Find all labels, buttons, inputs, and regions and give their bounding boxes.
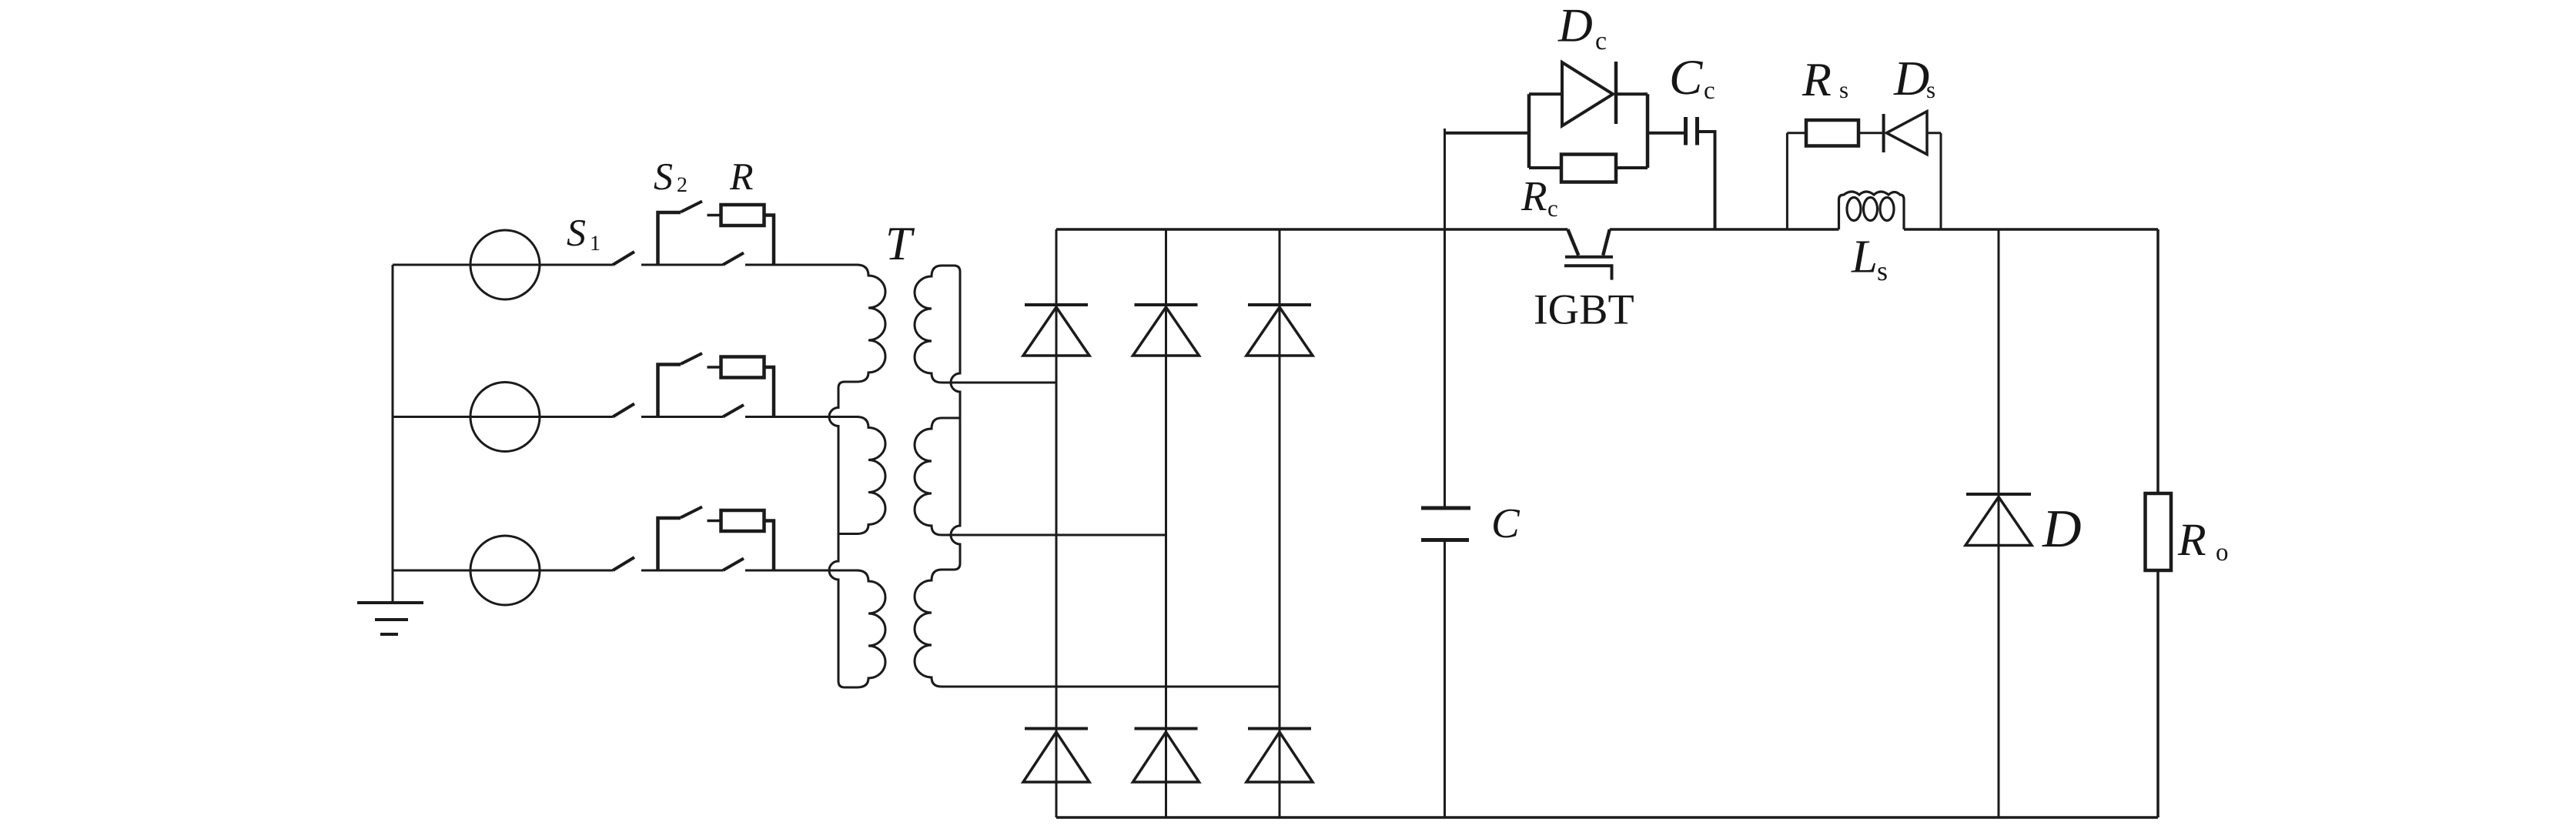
- svg-text:R: R: [2177, 514, 2206, 565]
- wire Cc to emitter rail: [1698, 132, 1715, 229]
- svg-text:D: D: [2042, 500, 2082, 559]
- wire diode D branch vertical: [1998, 229, 2000, 817]
- svg-text:s: s: [1839, 76, 1848, 103]
- node Ds branch right vertical: [1940, 133, 1942, 229]
- wire load branch vertical upper: [2156, 229, 2159, 493]
- secondary neutral bus with hops over output wires: [951, 266, 960, 570]
- diode Dc: [1562, 62, 1616, 126]
- wire phase2 from bus to S1 pivot: [393, 416, 613, 418]
- wire phase1 to transformer: [745, 264, 858, 266]
- transformer T secondary winding 3: [915, 570, 954, 687]
- wire rail IGBT emitter to Ls riser: [1610, 228, 1839, 231]
- wire snubber top branch right: [1616, 92, 1648, 95]
- wire phase2 between switches: [641, 416, 723, 418]
- diode VD2 (bottom leg3): [1246, 729, 1313, 783]
- node branch left phase2: [658, 365, 681, 417]
- primary neutral bus with hops over phase wires: [829, 388, 845, 687]
- bypass switch blade phase1: [723, 253, 744, 266]
- transformer T primary winding 3: [845, 570, 885, 687]
- resistor R phase2: [721, 357, 764, 378]
- wire snubber left lead: [1445, 132, 1530, 135]
- svg-text:T: T: [885, 218, 915, 270]
- rectifier bridge leg 1: [1055, 229, 1058, 817]
- svg-text:C: C: [1669, 50, 1703, 105]
- wire load branch vertical lower: [2156, 570, 2159, 817]
- ground: [357, 603, 423, 634]
- switch S1 blade phase1: [613, 252, 634, 265]
- diode VD4 (bottom leg1): [1023, 729, 1089, 783]
- wire Rs lead left: [1787, 132, 1806, 134]
- svg-text:s: s: [1926, 76, 1935, 103]
- switch S1 blade phase3: [613, 557, 634, 570]
- diode D: [1965, 494, 2032, 546]
- svg-text:2: 2: [677, 173, 687, 197]
- svg-text:o: o: [2216, 539, 2229, 567]
- rectifier bridge leg 2: [1165, 229, 1167, 817]
- wire R lead right + branch right phase3: [764, 521, 774, 571]
- capacitor Cc: [1686, 117, 1698, 145]
- svg-text:1: 1: [590, 232, 601, 256]
- wire Rs to Ds: [1858, 132, 1884, 134]
- node Rs branch left vertical: [1786, 133, 1788, 229]
- capacitor C: [1421, 508, 1470, 540]
- wire phase2 to transformer: [745, 416, 858, 418]
- resistor R phase3: [721, 510, 764, 531]
- node snubber block left side: [1527, 94, 1531, 168]
- resistor R phase1: [721, 205, 764, 226]
- wire phase3 between switches: [641, 570, 723, 572]
- transformer T secondary winding 2: [915, 418, 960, 535]
- svg-text:c: c: [1704, 77, 1715, 105]
- switch S2 blade phase2: [681, 353, 702, 364]
- node snubber block right side: [1646, 94, 1650, 168]
- svg-text:c: c: [1595, 27, 1607, 55]
- resistor Ro: [2146, 493, 2172, 570]
- wire secondary output b: [942, 534, 1166, 537]
- diode Ds: [1884, 112, 1927, 155]
- svg-text:D: D: [1557, 0, 1593, 52]
- wire DC link vertical above capacitor: [1444, 129, 1446, 506]
- wire phase3 to transformer: [745, 570, 858, 572]
- wire R lead right + branch right phase2: [764, 367, 774, 417]
- node branch left phase3: [658, 518, 681, 570]
- transformer T primary winding 1: [838, 265, 885, 388]
- AC source G2: [470, 383, 540, 452]
- wire secondary output c: [942, 686, 1280, 688]
- AC source G1: [470, 230, 540, 299]
- wire R lead left phase3: [708, 520, 721, 523]
- svg-text:S: S: [567, 211, 586, 254]
- transformer T primary winding 2: [838, 417, 885, 534]
- svg-text:IGBT: IGBT: [1534, 286, 1634, 334]
- node branch left phase1: [658, 212, 681, 265]
- svg-text:C: C: [1491, 500, 1521, 547]
- svg-text:L: L: [1851, 232, 1878, 283]
- diode VD6 (bottom leg2): [1133, 729, 1199, 783]
- diode VD3 (top leg2): [1133, 305, 1199, 356]
- resistor Rs: [1806, 120, 1858, 146]
- wire DC- rail (bottom bus): [1056, 816, 2158, 819]
- rectifier bridge leg 3: [1279, 229, 1281, 817]
- wire snubber bottom branch right: [1616, 166, 1648, 169]
- bypass switch blade phase3: [723, 559, 744, 571]
- wire R lead right + branch right phase1: [764, 216, 774, 266]
- AC source G3: [470, 536, 540, 605]
- resistor Rc: [1561, 155, 1616, 182]
- left vertical bus (source neutral): [392, 265, 394, 603]
- svg-text:D: D: [1893, 51, 1929, 105]
- wire rail Ls to load corner: [1904, 228, 2158, 231]
- transistor IGBT: [1564, 229, 1614, 280]
- wire Ds lead right: [1927, 132, 1941, 134]
- svg-text:R: R: [1802, 54, 1832, 106]
- svg-text:s: s: [1877, 256, 1888, 286]
- switch S2 blade phase3: [681, 507, 702, 518]
- bypass switch blade phase2: [723, 405, 744, 417]
- wire secondary output a: [942, 382, 1056, 384]
- inductor Ls: [1839, 192, 1905, 229]
- svg-text:c: c: [1547, 195, 1558, 222]
- diode VD5 (top leg3): [1246, 305, 1313, 356]
- wire snubber to Cc: [1648, 132, 1686, 135]
- svg-text:R: R: [1521, 172, 1547, 219]
- wire phase3 from bus to S1 pivot: [393, 570, 613, 572]
- switch S2 blade phase1: [681, 202, 702, 212]
- wire R lead left phase2: [708, 366, 721, 369]
- wire below capacitor C: [1444, 542, 1446, 817]
- diode VD1 (top leg1): [1023, 305, 1089, 356]
- wire snubber top branch left: [1529, 92, 1562, 95]
- transformer T secondary winding 1: [915, 266, 954, 383]
- wire DC+ rail (bridge to IGBT collector): [1056, 228, 1567, 231]
- svg-text:S: S: [654, 155, 673, 198]
- svg-text:R: R: [729, 155, 754, 198]
- wire phase1 between S1 and lower blade: [641, 264, 723, 266]
- wire snubber bottom branch left: [1529, 166, 1561, 169]
- switch S1 blade phase2: [613, 404, 634, 417]
- wire phase1 from bus to S1 pivot: [393, 264, 613, 266]
- wire R lead left phase1: [708, 214, 721, 217]
